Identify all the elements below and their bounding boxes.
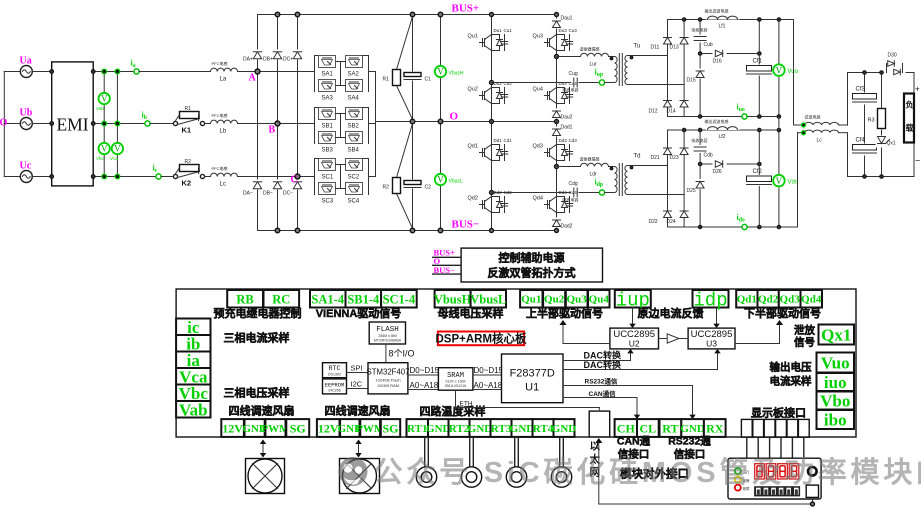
fan 2 xyxy=(340,459,380,494)
svg-text:Cd3: Cd3 xyxy=(569,138,578,143)
svg-text:Lc: Lc xyxy=(817,138,823,144)
current sensor ido xyxy=(742,224,747,229)
capacitor Cf2 output xyxy=(746,130,773,227)
svg-text:四线调速风扇: 四线调速风扇 xyxy=(229,404,295,418)
port SC1-4 xyxy=(381,290,417,308)
display connector pin 1 xyxy=(741,419,752,458)
svg-text:隔直电容: 隔直电容 xyxy=(563,87,579,93)
port GND temp xyxy=(428,419,449,437)
svg-text:电流采样: 电流采样 xyxy=(770,375,812,388)
svg-text:SA1: SA1 xyxy=(322,72,334,78)
svg-text:192KB RAM: 192KB RAM xyxy=(377,383,399,388)
svg-text:CAN通信: CAN通信 xyxy=(589,389,617,398)
port RT1 temp xyxy=(407,419,429,437)
svg-text:B: B xyxy=(269,125,276,136)
svg-text:信号: 信号 xyxy=(794,336,815,349)
svg-text:D25: D25 xyxy=(687,188,696,194)
svg-text:A0~A18: A0~A18 xyxy=(410,381,439,390)
svg-text:F28377D: F28377D xyxy=(510,368,555,380)
wire series link upper-lower xyxy=(778,117,780,131)
svg-text:GND: GND xyxy=(468,423,493,435)
svg-text:载: 载 xyxy=(906,123,914,133)
svg-text:Qu4: Qu4 xyxy=(533,87,543,93)
svg-text:Qu2: Qu2 xyxy=(468,87,478,93)
transistor Qu4 xyxy=(533,81,578,107)
svg-text:Du2: Du2 xyxy=(494,81,503,86)
diode D30 xyxy=(884,53,906,75)
diode D26 xyxy=(713,159,727,175)
svg-text:D0~D15: D0~D15 xyxy=(474,366,504,375)
svg-text:V: V xyxy=(437,175,444,185)
svg-text:SG: SG xyxy=(382,421,398,435)
capacitor Cf3 xyxy=(852,73,878,177)
current sensor ic xyxy=(156,174,161,179)
svg-text:Qx1: Qx1 xyxy=(821,326,851,345)
bus stm32-sram xyxy=(408,366,440,390)
svg-text:SC3: SC3 xyxy=(322,199,334,205)
wire rect bottom rail u xyxy=(668,116,779,118)
svg-text:512K x 16bit: 512K x 16bit xyxy=(446,380,466,384)
svg-text:DA−: DA− xyxy=(243,191,253,197)
diode D25 xyxy=(687,179,706,194)
svg-text:Qd2: Qd2 xyxy=(758,294,779,306)
node A xyxy=(255,69,260,74)
node bridge junctions upper xyxy=(490,13,559,124)
inductor La PFC xyxy=(211,60,238,83)
svg-text:1024KB Flash: 1024KB Flash xyxy=(375,378,400,383)
port Qu2 xyxy=(543,290,565,308)
svg-text:DB−: DB− xyxy=(263,191,273,197)
svg-text:D21: D21 xyxy=(651,155,660,161)
svg-text:D22: D22 xyxy=(649,219,658,225)
svg-text:SB3: SB3 xyxy=(322,148,334,154)
diode D24 xyxy=(667,195,689,227)
svg-text:O: O xyxy=(0,118,8,129)
svg-text:RC: RC xyxy=(272,292,290,306)
svg-text:R1: R1 xyxy=(383,77,390,83)
port Qx1 xyxy=(819,325,855,345)
svg-text:D13: D13 xyxy=(670,45,679,51)
diode D13 xyxy=(670,20,689,85)
port Vuo xyxy=(817,353,855,373)
svg-text:ETH: ETH xyxy=(460,401,473,408)
svg-text:D16: D16 xyxy=(713,59,722,65)
wire resonant tank return Tu xyxy=(492,82,571,84)
svg-text:DS1302: DS1302 xyxy=(328,373,341,377)
svg-text:V: V xyxy=(776,65,783,75)
svg-text:控制辅助电源: 控制辅助电源 xyxy=(499,251,565,265)
svg-text:C2: C2 xyxy=(425,185,432,191)
chip SRAM xyxy=(438,368,473,391)
port GND fan2 xyxy=(340,419,359,437)
svg-text:Cf2: Cf2 xyxy=(753,169,763,175)
temp sensor RT3 xyxy=(506,437,526,487)
svg-text:谐振器漏感: 谐振器漏感 xyxy=(580,156,600,162)
transistor Qu2 xyxy=(468,81,513,107)
node C xyxy=(295,174,300,179)
port VbusL xyxy=(471,290,506,308)
voltmeter Vdo xyxy=(773,130,799,227)
wire SPI xyxy=(347,372,369,374)
svg-text:输出电压: 输出电压 xyxy=(770,361,812,374)
svg-text:V: V xyxy=(437,67,444,77)
capacitor Cf1 output xyxy=(746,20,773,117)
node rect u xyxy=(682,18,780,119)
diode Dad2 clamp xyxy=(552,218,573,230)
switch cell SB1-SB4 vienna xyxy=(315,108,369,154)
svg-text:R1: R1 xyxy=(185,106,192,112)
wire phase B after EMI xyxy=(93,123,145,125)
svg-text:谐振器漏感: 谐振器漏感 xyxy=(580,46,600,52)
svg-text:Cu1: Cu1 xyxy=(504,28,513,33)
chip STM32F407 xyxy=(367,363,410,394)
svg-text:SC2: SC2 xyxy=(348,175,360,181)
EMI filter box xyxy=(50,62,93,186)
wire phase C to bridge xyxy=(238,176,315,178)
svg-text:隔直电容: 隔直电容 xyxy=(563,197,579,203)
svg-text:iuo: iuo xyxy=(824,373,847,392)
svg-text:C1: C1 xyxy=(425,77,432,83)
capacitor Cf4 xyxy=(852,138,878,156)
svg-text:R2: R2 xyxy=(383,185,390,191)
svg-text:BUS+: BUS+ xyxy=(452,3,480,15)
inductor Lf2 output filter xyxy=(705,118,740,140)
svg-text:Qd1: Qd1 xyxy=(468,144,478,150)
svg-text:DSP+ARM核心板: DSP+ARM核心板 xyxy=(435,332,527,346)
svg-text:SA1-4: SA1-4 xyxy=(311,292,344,306)
svg-text:DAC转换: DAC转换 xyxy=(584,359,622,370)
svg-text:Vuo: Vuo xyxy=(821,354,850,373)
svg-text:DC−: DC− xyxy=(283,191,293,197)
svg-text:ibo: ibo xyxy=(824,411,847,430)
svg-text:Qu3: Qu3 xyxy=(567,294,588,306)
svg-text:V: V xyxy=(114,144,121,154)
wire mid tap u xyxy=(700,53,759,55)
display connector pin 3 xyxy=(764,419,775,458)
diode D21 xyxy=(651,130,672,166)
seven segment display xyxy=(755,464,799,479)
svg-text:泄放: 泄放 xyxy=(794,324,815,337)
svg-text:SB4: SB4 xyxy=(348,148,360,154)
svg-text:下半部驱动信号: 下半部驱动信号 xyxy=(744,306,821,320)
svg-text:四路温度采样: 四路温度采样 xyxy=(420,404,486,418)
wire phase A after EMI xyxy=(93,71,134,73)
chip EEPROM xyxy=(323,379,347,394)
svg-text:RB: RB xyxy=(236,292,253,306)
chip FLASH xyxy=(369,322,405,344)
port ethernet xyxy=(589,411,610,437)
svg-text:VbusH: VbusH xyxy=(449,71,464,77)
diode D15 xyxy=(687,69,706,84)
svg-text:D24: D24 xyxy=(667,219,676,225)
current sensor ib xyxy=(145,121,150,126)
port 12V fan1 xyxy=(221,419,244,437)
label BUS+ aux input xyxy=(432,248,461,258)
label O aux input xyxy=(432,256,461,266)
wire mid tap d xyxy=(700,163,759,165)
control board outline xyxy=(176,289,856,437)
wire Tu secondary top xyxy=(628,55,668,57)
svg-text:RT2: RT2 xyxy=(449,423,470,435)
svg-text:V: V xyxy=(101,144,108,154)
current sensor iup xyxy=(599,80,604,85)
svg-text:Dad2: Dad2 xyxy=(561,224,573,230)
svg-text:Vab: Vab xyxy=(179,400,208,419)
port Qd1 xyxy=(736,290,757,308)
svg-text:DC+: DC+ xyxy=(283,57,293,63)
port GND rs232 xyxy=(681,419,704,437)
svg-text:12V: 12V xyxy=(222,421,243,435)
svg-text:Cu4: Cu4 xyxy=(569,81,578,86)
wire vienna midpoint collector xyxy=(369,72,376,177)
current sensor iuo xyxy=(742,114,747,119)
wire Td secondary bottom xyxy=(628,194,685,196)
svg-text:V: V xyxy=(776,176,783,186)
bus sram-dsp xyxy=(473,366,504,390)
svg-text:Cf3: Cf3 xyxy=(856,87,866,93)
wire resonant tank top Td xyxy=(557,166,581,168)
svg-text:Qu1: Qu1 xyxy=(468,34,478,40)
svg-text:RS232通信: RS232通信 xyxy=(585,377,618,386)
svg-text:预充电继电器控制: 预充电继电器控制 xyxy=(214,306,302,320)
svg-text:DA+: DA+ xyxy=(243,57,253,63)
wire rect top rail u xyxy=(668,19,794,21)
diode DA- boost bottom xyxy=(243,180,263,197)
svg-text:Cu3: Cu3 xyxy=(569,28,578,33)
svg-text:EMI: EMI xyxy=(56,115,88,135)
port Qd3 xyxy=(779,290,801,308)
node output stage xyxy=(847,71,883,179)
wire phase A to inductor xyxy=(139,71,210,73)
wire U3 to lower drive xyxy=(735,322,780,344)
wire iup to U2 xyxy=(632,308,634,329)
wire phase A to bridge xyxy=(238,71,315,73)
svg-text:O: O xyxy=(450,111,459,123)
diode DB- boost bottom xyxy=(263,180,283,197)
svg-text:Dd1: Dd1 xyxy=(494,138,503,143)
diode D11 xyxy=(651,20,672,56)
svg-text:MT29F2G08ABA: MT29F2G08ABA xyxy=(374,339,402,343)
capacitor Cdg dc-block xyxy=(563,181,579,203)
capacitor Cug dc-block xyxy=(563,71,579,93)
svg-text:吸收电容: 吸收电容 xyxy=(692,137,708,143)
port Qd2 xyxy=(758,290,779,308)
wire resonant tank return Td xyxy=(492,192,571,194)
wire DAC1 dsp to U2 xyxy=(563,349,631,361)
transistor Qd3 xyxy=(533,138,578,164)
svg-text:VbusH: VbusH xyxy=(434,292,472,306)
relay K1 with bypass resistor R1 xyxy=(173,106,210,135)
svg-text:D15: D15 xyxy=(687,78,696,84)
port SG fan2 xyxy=(381,419,400,437)
svg-text:GND: GND xyxy=(680,423,705,435)
transistor Qd4 xyxy=(533,190,578,216)
display connector pin 5 xyxy=(787,419,798,458)
svg-text:DAC转换: DAC转换 xyxy=(584,350,622,361)
diode D14 xyxy=(667,85,689,117)
diode Dau1 clamp xyxy=(552,16,573,29)
port RT4 temp xyxy=(533,419,554,437)
inductor Lur resonant xyxy=(580,46,609,68)
svg-text:四线调速风扇: 四线调速风扇 xyxy=(325,404,391,418)
svg-text:Qd4: Qd4 xyxy=(533,196,543,202)
inductor Lf1 output filter xyxy=(705,8,740,30)
diode Dau2 clamp xyxy=(552,109,573,121)
wire three-phase input left rail xyxy=(3,72,5,177)
svg-text:D14: D14 xyxy=(667,109,676,115)
svg-text:GND: GND xyxy=(552,423,577,435)
bus BUS+ top rail xyxy=(258,14,557,16)
port RX xyxy=(704,419,726,437)
svg-text:VbusL: VbusL xyxy=(470,292,506,306)
display board xyxy=(728,458,821,499)
wire idp to U3 xyxy=(716,308,718,329)
transistor Qu3 xyxy=(533,28,578,54)
port GND temp xyxy=(470,419,491,437)
svg-text:PFC电感: PFC电感 xyxy=(212,165,228,171)
wire rect bottom rail d xyxy=(668,226,798,228)
svg-text:−: − xyxy=(915,156,920,166)
svg-text:RT: RT xyxy=(662,421,678,435)
svg-text:RS232通: RS232通 xyxy=(668,436,711,448)
svg-text:Du4: Du4 xyxy=(559,81,568,86)
temp sensor RT4 xyxy=(551,437,571,487)
watermark logo xyxy=(339,457,368,486)
port ib xyxy=(176,335,210,352)
svg-text:RT1: RT1 xyxy=(407,423,427,435)
source Ua xyxy=(20,56,52,78)
svg-text:CAN通: CAN通 xyxy=(617,436,651,448)
svg-text:Dau1: Dau1 xyxy=(561,16,573,22)
wire plus output to Lc xyxy=(793,20,795,126)
diode DB+ boost top xyxy=(263,15,283,231)
port Vbo xyxy=(817,392,855,410)
port CL xyxy=(637,419,659,437)
chip DSP ARM core label box xyxy=(435,332,527,346)
svg-text:256M x 8bit: 256M x 8bit xyxy=(378,334,397,338)
port Qd4 xyxy=(801,290,823,308)
svg-text:公众号 SiC碳化硅MOS管及功率模块的应用: 公众号 SiC碳化硅MOS管及功率模块的应用 xyxy=(374,455,921,489)
wire minus output to Lc xyxy=(797,133,799,227)
svg-text:K2: K2 xyxy=(182,179,192,188)
chip F28377D U1 xyxy=(502,354,564,403)
wire DAC2 dsp to U3 xyxy=(563,349,718,370)
resistor R1 bus bleeder upper xyxy=(383,17,413,120)
svg-text:Ub: Ub xyxy=(20,108,33,119)
svg-text:Qd4: Qd4 xyxy=(801,294,822,306)
svg-text:Cdb: Cdb xyxy=(704,153,713,159)
voltmeter Vbc xyxy=(96,143,110,162)
bus BUS- bottom rail xyxy=(258,230,557,232)
wire U2 to upper drive xyxy=(563,322,610,344)
temp sensor RT2 xyxy=(461,437,481,487)
svg-text:V: V xyxy=(101,94,108,104)
svg-text:Vbo: Vbo xyxy=(820,392,850,411)
inductor Ldr resonant xyxy=(580,156,609,178)
wire phase B to relay xyxy=(150,123,173,125)
svg-text:RT3: RT3 xyxy=(491,423,512,435)
display connector pin 2 xyxy=(753,419,764,458)
inductor Lc PFC xyxy=(211,165,238,188)
port CH xyxy=(615,419,637,437)
svg-text:Lf1: Lf1 xyxy=(719,24,726,30)
svg-text:Qd3: Qd3 xyxy=(533,144,543,150)
svg-text:吸收电容: 吸收电容 xyxy=(692,27,708,33)
capacitor C1 bus upper xyxy=(404,15,432,122)
svg-text:Du1: Du1 xyxy=(494,28,503,33)
svg-text:Lf2: Lf2 xyxy=(719,134,726,140)
svg-text:VbusL: VbusL xyxy=(449,179,463,185)
svg-text:反激双管拓扑方式: 反激双管拓扑方式 xyxy=(488,266,576,280)
node bridge junctions lower xyxy=(490,165,559,233)
svg-text:负: 负 xyxy=(906,100,914,110)
svg-text:SC1: SC1 xyxy=(322,175,334,181)
svg-text:输出滤波电感: 输出滤波电感 xyxy=(705,8,729,14)
port ic xyxy=(176,319,210,336)
label BUS- aux input xyxy=(432,265,461,275)
port iup xyxy=(615,290,651,308)
temp sensor RT1 xyxy=(416,437,436,487)
svg-text:Ua: Ua xyxy=(20,56,32,67)
diode D16 xyxy=(713,49,727,65)
diode DC+ boost top xyxy=(283,15,303,231)
svg-text:idp: idp xyxy=(693,290,727,312)
svg-text:U3: U3 xyxy=(706,339,717,349)
diode Dad1 clamp xyxy=(552,125,573,137)
source Ub xyxy=(20,108,52,130)
wire Tu secondary bottom xyxy=(628,84,685,86)
svg-text:Cf1: Cf1 xyxy=(753,59,763,65)
svg-text:CL: CL xyxy=(640,421,657,435)
svg-text:Dd3: Dd3 xyxy=(559,138,568,143)
svg-text:Vca: Vca xyxy=(110,156,118,161)
svg-text:Cd1: Cd1 xyxy=(504,138,513,143)
transformer Tu xyxy=(610,44,640,86)
display connector pin 4 xyxy=(776,419,787,458)
port idp xyxy=(693,290,729,308)
svg-text:显示板接口: 显示板接口 xyxy=(751,406,806,420)
diode D12 xyxy=(649,56,672,117)
port Qu4 xyxy=(588,290,610,308)
transistor Qu1 xyxy=(468,28,513,54)
led red fault xyxy=(735,485,741,491)
voltmeter VbusL xyxy=(435,122,463,231)
svg-text:D30: D30 xyxy=(888,53,897,59)
svg-text:I2C: I2C xyxy=(351,380,363,389)
svg-text:滤波电感: 滤波电感 xyxy=(805,114,821,120)
resistor R3 xyxy=(868,73,887,177)
voltmeter Vuo xyxy=(773,20,799,117)
chip RTC xyxy=(323,363,347,378)
diode DC- boost bottom xyxy=(283,180,303,197)
svg-text:SB1: SB1 xyxy=(322,124,334,130)
svg-text:Qd1: Qd1 xyxy=(737,294,757,306)
port ia xyxy=(176,352,210,369)
capacitor C2 bus lower xyxy=(404,122,432,231)
svg-text:Cu2: Cu2 xyxy=(504,81,513,86)
wire I2C xyxy=(347,388,369,390)
svg-text:DB+: DB+ xyxy=(263,57,273,63)
label ethernet vertical xyxy=(589,441,601,479)
svg-text:Qx1: Qx1 xyxy=(887,141,896,147)
svg-text:R3: R3 xyxy=(868,118,875,124)
svg-text:K1: K1 xyxy=(182,126,192,135)
svg-text:D0~D15: D0~D15 xyxy=(410,366,440,375)
port SG fan1 xyxy=(286,419,309,437)
voltmeter Vca xyxy=(110,143,123,162)
wire phase C after EMI xyxy=(93,176,156,178)
wire RS232 dsp to port xyxy=(563,386,693,420)
